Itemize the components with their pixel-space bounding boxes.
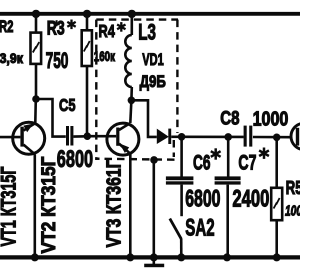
svg-text:VT1 КТ315Г: VT1 КТ315Г <box>0 166 21 246</box>
wire bottom common rail <box>0 255 300 259</box>
svg-text:VT2 КТ315Г: VT2 КТ315Г <box>38 157 60 254</box>
wire to VT3 base <box>87 135 116 138</box>
svg-text:C5: C5 <box>59 95 76 115</box>
node junction C8/R5 <box>273 134 281 142</box>
ground symbol <box>144 257 164 267</box>
svg-text:1000: 1000 <box>253 108 289 131</box>
svg-text:VT3 КТ361Г: VT3 КТ361Г <box>103 160 125 248</box>
node shield ground tap <box>150 156 158 164</box>
transistor VT3 <box>107 100 139 257</box>
node junction C7 <box>224 133 232 141</box>
svg-text:6800: 6800 <box>57 146 93 173</box>
node VT3 emitter on rail <box>126 253 134 261</box>
resistor R3 <box>82 10 92 137</box>
svg-text:VD1: VD1 <box>142 50 164 69</box>
svg-text:C6: C6 <box>193 150 211 174</box>
capacitor C6 <box>166 137 194 216</box>
diode VD1 <box>157 129 182 144</box>
svg-text:C7: C7 <box>238 151 256 175</box>
wire detector output <box>182 136 244 139</box>
transistor VT2 <box>0 99 45 257</box>
wire top supply rail <box>0 12 300 16</box>
stray dash mark <box>56 20 58 26</box>
node junction R2/C5/VT2 <box>32 95 40 103</box>
node junction L3/VT3 collector <box>128 97 136 105</box>
resistor R2 <box>31 10 42 99</box>
inductor L3 <box>125 10 136 101</box>
svg-text:750: 750 <box>46 48 69 73</box>
node junction diode/C6 <box>178 133 186 141</box>
node shield wire on rail <box>150 253 158 261</box>
capacitor C7 <box>215 137 241 258</box>
svg-text:100: 100 <box>285 203 300 219</box>
svg-text:R4: R4 <box>99 21 115 41</box>
node C7 on rail <box>223 253 231 261</box>
node VT2 emitter on rail <box>31 253 39 261</box>
svg-text:SA2: SA2 <box>185 215 214 242</box>
capacitor C8 <box>244 126 291 147</box>
node R5 on rail <box>273 253 281 261</box>
svg-text:L3: L3 <box>138 19 156 44</box>
svg-text:R2: R2 <box>0 18 14 36</box>
transistor VT4 (clipped at edge) <box>291 123 317 149</box>
svg-text:2400: 2400 <box>232 186 269 213</box>
svg-text:Д9Б: Д9Б <box>140 72 166 91</box>
capacitor C5 <box>66 126 87 146</box>
node junction R3/C5/VT3 base <box>84 132 92 140</box>
switch SA2 <box>170 219 182 258</box>
wire C5 feed <box>36 99 66 137</box>
svg-text:C8: C8 <box>220 108 239 129</box>
svg-text:6800: 6800 <box>185 185 220 212</box>
resistor R5 <box>271 137 282 257</box>
wire shield to ground <box>153 160 156 258</box>
svg-text:3,9к: 3,9к <box>0 50 24 66</box>
svg-text:R5: R5 <box>286 177 300 198</box>
wire to diode <box>131 100 156 137</box>
dashed shield box <box>96 20 178 160</box>
node SA2 on rail <box>177 253 185 261</box>
